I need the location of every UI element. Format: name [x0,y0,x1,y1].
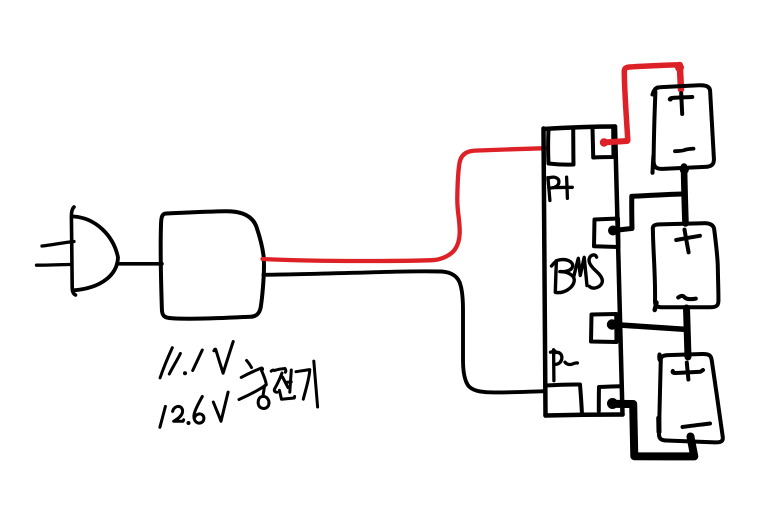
red wire BMS pad to battery1 plus [600,63,684,147]
BMS board U1 [544,127,623,416]
battery cell B3 [659,354,723,442]
label BMS [552,255,603,293]
label P- [551,350,578,381]
battery cell B1 [653,85,714,173]
heavy wire battery2 minus to battery3 plus [687,308,689,357]
label 11.1V [160,342,233,378]
plug P1 [37,207,119,295]
label P+ [548,177,572,200]
BMS pad top-left [548,128,573,165]
heavy wire BMS P- to battery3 minus [607,398,694,456]
wire BMS pad mid-2 to junction [607,319,688,329]
battery cell B2 [653,223,719,310]
wire plug to charger [117,262,162,266]
wire BMS pad mid-1 to junction [608,194,682,236]
heavy wire battery1 minus to battery2 plus [680,165,689,174]
BMS pad bottom-left [546,384,582,414]
BMS pad mid-2 [591,314,617,342]
charger box [161,211,264,319]
BMS pad mid-1 [594,219,619,248]
label 12.6V [160,392,228,427]
red wire charger to BMS P+ [263,148,547,261]
BMS pad top-right [593,127,614,158]
black wire charger to BMS P- [264,271,545,392]
label charger (Korean 충전기) [239,361,318,409]
BMS pad bottom-right [599,386,620,411]
